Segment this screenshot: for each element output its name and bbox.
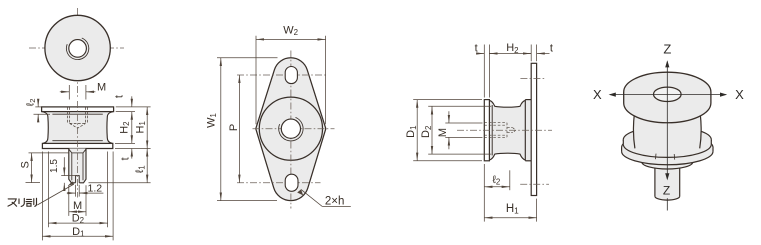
svg-text:X: X xyxy=(593,87,602,102)
svg-text:M: M xyxy=(437,128,449,137)
svg-text:t: t xyxy=(114,95,126,98)
svg-text:X: X xyxy=(735,87,744,102)
svg-text:M: M xyxy=(97,82,106,94)
svg-text:Z: Z xyxy=(663,42,671,57)
svg-text:2×h: 2×h xyxy=(325,195,345,207)
svg-text:t: t xyxy=(550,42,553,54)
svg-text:Z: Z xyxy=(663,184,670,198)
svg-text:S: S xyxy=(20,161,32,168)
svg-text:1.2: 1.2 xyxy=(87,183,102,195)
svg-text:M: M xyxy=(73,200,82,212)
svg-text:1.5: 1.5 xyxy=(49,159,60,173)
svg-text:H1: H1 xyxy=(506,203,519,216)
svg-text:t: t xyxy=(475,42,478,54)
svg-text:t: t xyxy=(120,157,132,160)
svg-text:P: P xyxy=(228,124,240,131)
